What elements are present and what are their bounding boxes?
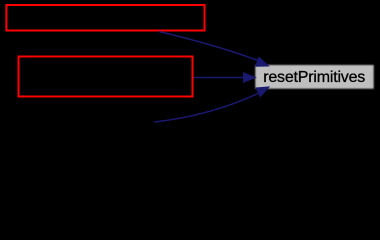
current node resetPrimitives (gray box) (255, 65, 373, 89)
arrowhead edge 3 (256, 87, 269, 97)
svg-text:resetPrimitives: resetPrimitives (263, 69, 365, 86)
arrowhead edge 2 (244, 73, 256, 83)
caller node 2 (red truncated box) (19, 57, 193, 97)
arrowhead edge 1 (256, 57, 269, 66)
edge from caller 1 (159, 32, 262, 63)
edge from caller 2 (194, 77, 248, 79)
caller node 1 (red truncated box) (6, 5, 204, 31)
edge from caller 3 (node outside view) (155, 92, 263, 123)
